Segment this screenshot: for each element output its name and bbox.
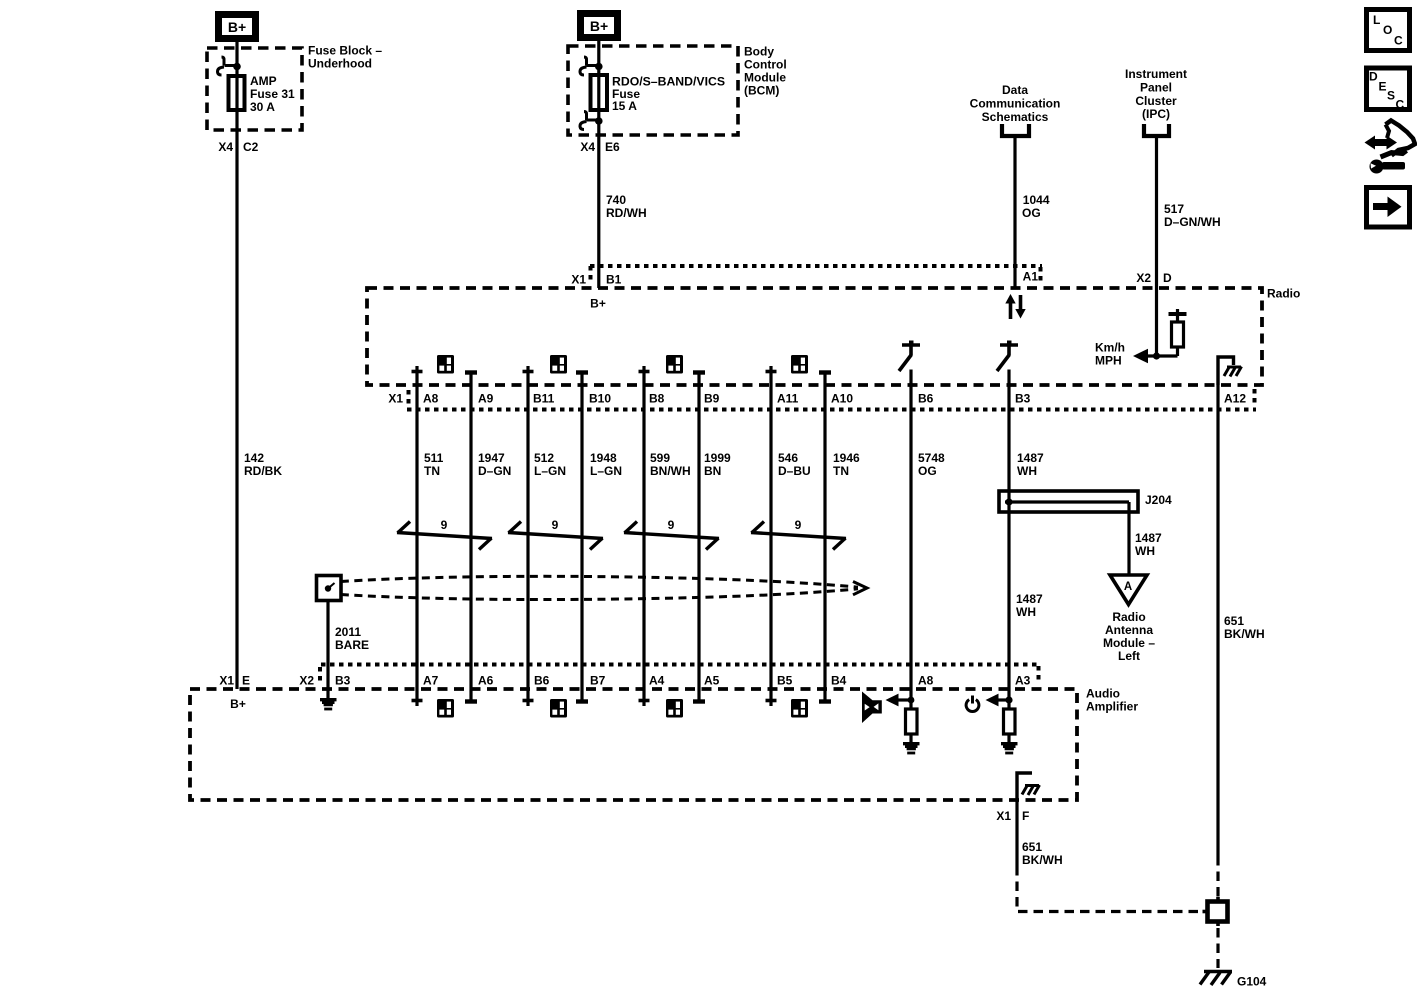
svg-text:A6: A6 [478, 674, 494, 688]
svg-text:B+: B+ [228, 19, 246, 35]
svg-text:Radio: Radio [1267, 287, 1300, 301]
junction amp A3 [1005, 696, 1012, 703]
svg-text:Schematics: Schematics [982, 110, 1049, 124]
value label fuse 31 AMP 30 A [250, 74, 295, 114]
power symbol amp A3 [966, 696, 979, 712]
radio dashed box [367, 288, 1262, 385]
minus terminal radio A9 [465, 370, 477, 374]
svg-text:X1: X1 [996, 809, 1011, 823]
svg-text:B4: B4 [831, 674, 847, 688]
fuse block underhood dashed box [207, 48, 302, 130]
svg-text:740: 740 [606, 193, 626, 207]
svg-text:Radio: Radio [1112, 610, 1145, 624]
svg-text:Antenna: Antenna [1105, 623, 1153, 637]
svg-text:B6: B6 [918, 392, 934, 406]
shield drain box [317, 576, 342, 601]
svg-text:511: 511 [424, 451, 444, 465]
svg-text:D–GN: D–GN [478, 464, 511, 478]
svg-text:A12: A12 [1224, 392, 1246, 406]
value label fuse RDO/S-BAND/VICS 15 A [612, 75, 725, 113]
wire label 651 BK/WH right [1224, 614, 1265, 641]
audio amplifier dashed box [190, 689, 1077, 800]
svg-text:512: 512 [534, 451, 554, 465]
svg-text:BK/WH: BK/WH [1022, 853, 1063, 867]
icon LOC box [1367, 10, 1410, 51]
arrow to power symbol [986, 694, 1010, 707]
svg-text:B+: B+ [590, 18, 608, 34]
plus terminal amp B6 [523, 699, 534, 703]
label radio antenna module left [1103, 610, 1155, 663]
svg-text:Control: Control [744, 58, 787, 72]
svg-text:Module –: Module – [1103, 636, 1155, 650]
svg-text:BN/WH: BN/WH [650, 464, 691, 478]
svg-text:517: 517 [1164, 202, 1184, 216]
wire label 511 TN [424, 451, 444, 478]
svg-text:Amplifier: Amplifier [1086, 700, 1138, 714]
svg-text:9: 9 [668, 518, 675, 532]
wire resistor A8 to ground [909, 734, 912, 742]
dashed run to G104 [1216, 928, 1219, 968]
svg-text:A1: A1 [1023, 270, 1039, 284]
twisted pair symbol 4 [751, 522, 846, 550]
svg-text:Fuse 31: Fuse 31 [250, 87, 295, 101]
ground splice block [1203, 897, 1228, 926]
svg-text:9: 9 [441, 518, 448, 532]
wire 1487 WH J204 to antenna module [1127, 502, 1130, 575]
B+ terminal left [215, 11, 259, 42]
minus terminal amp B4 [819, 699, 831, 703]
svg-text:B1: B1 [606, 273, 622, 287]
data communication schematics bracket [1002, 124, 1029, 136]
svg-text:A7: A7 [423, 674, 439, 688]
svg-text:WH: WH [1017, 464, 1037, 478]
junction node D [1153, 352, 1160, 359]
svg-text:BK/WH: BK/WH [1224, 627, 1265, 641]
wire label 1999 BN [704, 451, 731, 478]
junction J204 [1005, 498, 1012, 505]
svg-text:F: F [1022, 809, 1029, 823]
svg-text:A4: A4 [649, 674, 665, 688]
wire 546 D-BU A11 to B5 [769, 366, 772, 706]
resistor amp A3 pulldown [1004, 709, 1016, 734]
svg-text:C: C [1396, 98, 1405, 112]
svg-text:A10: A10 [831, 392, 853, 406]
switch contact dot B3 [1007, 341, 1012, 346]
connector label X1 E [219, 674, 250, 688]
wire 1999 BN B9 to A5 [697, 373, 700, 702]
svg-text:B10: B10 [589, 392, 611, 406]
wire label 1947 D-GN [478, 451, 511, 478]
fuse clip F15 bottom [580, 112, 599, 130]
wire 740 RD/WH from B+ through fuse 15A to radio X1 B1 [597, 41, 600, 288]
wire 142 RD/BK from B+ to amplifier X1 E [235, 42, 238, 689]
chassis ground hatch amp X1 F [1022, 785, 1040, 795]
svg-text:1487: 1487 [1016, 592, 1043, 606]
svg-text:Fuse Block –: Fuse Block – [308, 44, 382, 58]
svg-text:E6: E6 [605, 140, 620, 154]
svg-text:1999: 1999 [704, 451, 731, 465]
plus terminal amp A4 [639, 699, 650, 703]
svg-text:Instrument: Instrument [1125, 67, 1187, 81]
junction clip F31 [233, 63, 241, 71]
radio antenna module triangle A [1110, 575, 1147, 605]
speaker icon amp front right [666, 699, 683, 718]
fuse F15 body [591, 75, 608, 110]
twisted pair symbol 3 [624, 522, 719, 550]
wire label 512 L-GN [534, 451, 566, 478]
resistor amp A8 pulldown [906, 709, 918, 734]
svg-text:A8: A8 [423, 392, 439, 406]
svg-text:1487: 1487 [1017, 451, 1044, 465]
svg-text:X1: X1 [219, 674, 234, 688]
svg-text:OG: OG [1022, 206, 1041, 220]
speaker icon amp rear right [791, 699, 808, 718]
plus terminal radio B11 [523, 370, 534, 374]
svg-text:(IPC): (IPC) [1142, 107, 1170, 121]
label body control module [744, 45, 787, 98]
wire 511 TN A8 to A7 [415, 366, 418, 706]
speaker icon radio front right [666, 355, 683, 374]
svg-text:2011: 2011 [335, 625, 361, 639]
svg-text:651: 651 [1224, 614, 1244, 628]
svg-text:X2: X2 [299, 674, 314, 688]
svg-text:15 A: 15 A [612, 99, 637, 113]
svg-text:Module: Module [744, 71, 786, 85]
fuse clip F15 top [580, 57, 599, 75]
label Km/h MPH [1095, 341, 1125, 368]
wire label 1948 L-GN [590, 451, 622, 478]
fuse F31 body [229, 76, 245, 110]
svg-text:C: C [1394, 34, 1403, 48]
svg-text:Left: Left [1118, 649, 1140, 663]
wire label 740 RD/WH [606, 193, 647, 220]
wire 1946 TN A10 to B4 [823, 373, 826, 702]
svg-text:A11: A11 [777, 392, 799, 406]
svg-text:B8: B8 [649, 392, 665, 406]
wire label 1946 TN [833, 451, 860, 478]
shield ellipse around speaker wires [341, 576, 858, 599]
svg-text:546: 546 [778, 451, 798, 465]
svg-text:B7: B7 [590, 674, 606, 688]
wire label 1487 WH upper [1017, 451, 1044, 478]
svg-text:BARE: BARE [335, 638, 369, 652]
ground symbol amp X2 B3 [320, 698, 337, 710]
shield drain dot [325, 585, 331, 591]
svg-text:D–BU: D–BU [778, 464, 811, 478]
wire through J204 [1007, 491, 1010, 512]
svg-text:A3: A3 [1015, 674, 1031, 688]
svg-text:L–GN: L–GN [534, 464, 566, 478]
svg-text:(BCM): (BCM) [744, 84, 779, 98]
wire label 142 RD/BK [244, 451, 282, 478]
amplifier connector dotted line (pins X2 B3 .. A3) [320, 665, 1040, 686]
svg-text:RD/WH: RD/WH [606, 206, 647, 220]
svg-text:D: D [1163, 271, 1172, 285]
svg-text:C2: C2 [243, 140, 259, 154]
instrument panel cluster bracket [1144, 124, 1169, 136]
svg-text:D: D [1369, 70, 1378, 84]
svg-text:RD/BK: RD/BK [244, 464, 282, 478]
switch symbol radio pin B3 [997, 345, 1018, 371]
icon DESC box [1367, 68, 1410, 112]
wire label 546 D-BU [778, 451, 811, 478]
radio serial data up/down arrows at A1 [1005, 294, 1025, 319]
label audio amplifier [1086, 687, 1138, 714]
label data communication schematics [970, 83, 1061, 124]
svg-text:142: 142 [244, 451, 264, 465]
label instrument panel cluster [1125, 67, 1187, 121]
dashed run 651 BK/WH to splice [1017, 866, 1203, 912]
svg-text:30 A: 30 A [250, 100, 275, 114]
plus terminal amp B5 [766, 699, 777, 703]
svg-text:B9: B9 [704, 392, 720, 406]
svg-text:E: E [242, 674, 250, 688]
connector label X2 B3 [299, 674, 350, 688]
shield drain tick [328, 583, 335, 589]
fuse clip F31 [218, 57, 238, 75]
radio connector X1 dotted line [407, 389, 1256, 410]
wire 651 BK/WH from radio A12 down [1216, 385, 1219, 856]
icon schematic reference tool [1365, 121, 1416, 174]
wire label 1487 WH lower [1016, 592, 1043, 619]
splice pack J204 [999, 491, 1138, 512]
body control module (BCM) dashed box [568, 46, 738, 135]
svg-text:651: 651 [1022, 840, 1042, 854]
switch symbol radio pin B6 [899, 345, 920, 371]
minus terminal amp B7 [576, 699, 588, 703]
chassis ground hatch radio A12 [1224, 367, 1242, 377]
svg-text:Panel: Panel [1140, 80, 1172, 94]
wire 651 BK/WH amp X1 F down [1015, 800, 1018, 866]
svg-text:Audio: Audio [1086, 687, 1120, 701]
minus terminal amp A5 [693, 699, 705, 703]
B+ terminal BCM feed [577, 10, 621, 41]
svg-text:9: 9 [795, 518, 802, 532]
wire 1947 D-GN A9 to A6 [469, 373, 472, 702]
svg-text:1487: 1487 [1135, 531, 1162, 545]
svg-text:TN: TN [424, 464, 440, 478]
arrow to Km/h MPH [1133, 349, 1148, 364]
svg-text:B6: B6 [534, 674, 550, 688]
svg-text:J204: J204 [1145, 493, 1172, 507]
twisted pair symbol 2 [508, 522, 603, 550]
svg-text:L–GN: L–GN [590, 464, 622, 478]
svg-text:Underhood: Underhood [308, 57, 372, 71]
svg-text:A8: A8 [918, 674, 934, 688]
wire label 1044 OG [1022, 193, 1050, 220]
wire label 517 D-GN/WH [1164, 202, 1221, 229]
speaker mute icon amp A8 [862, 692, 882, 724]
speaker icon amp front left [437, 699, 454, 718]
svg-text:G104: G104 [1237, 975, 1267, 989]
wire 5748 OG radio B6 to amp A8 [909, 370, 912, 710]
icon forward arrow box [1367, 188, 1410, 228]
dashed run 651 BK/WH from A12 [1216, 856, 1219, 898]
svg-text:X1: X1 [571, 273, 586, 287]
pin labels radio connector row [388, 392, 1246, 406]
wire 1948 L-GN B10 to B7 [580, 373, 583, 702]
wire 1487 WH radio B3 to amp A3 [1007, 370, 1010, 710]
plus terminal radio B8 [639, 370, 650, 374]
svg-text:MPH: MPH [1095, 354, 1122, 368]
junction clip F15 bottom [595, 117, 603, 125]
svg-text:WH: WH [1135, 544, 1155, 558]
svg-text:Cluster: Cluster [1135, 94, 1177, 108]
J204 internal bus [1005, 500, 1129, 503]
svg-text:B5: B5 [777, 674, 793, 688]
radio vehicle speed input wiring at D [1146, 309, 1187, 356]
label fuse block underhood [308, 44, 382, 71]
svg-text:X2: X2 [1136, 271, 1151, 285]
connector label X1 F [996, 809, 1029, 823]
svg-text:E: E [1379, 80, 1387, 94]
svg-text:X4: X4 [580, 140, 595, 154]
radio top connector X1 dotted line (pins B1 A1) [590, 266, 1042, 284]
speaker icon radio rear right [791, 355, 808, 374]
pin labels amp connector row [423, 674, 1031, 688]
resistor internal radio [1172, 322, 1184, 347]
switch contact dot B6 [909, 341, 914, 346]
speaker icon amp rear left [550, 699, 567, 718]
wire 2011 BARE shield drain to amp X2 B3 [326, 601, 329, 699]
connector label X4 E6 [580, 140, 620, 154]
speaker icon radio front left [437, 355, 454, 374]
amp case ground hook at X1 F [1017, 773, 1032, 800]
svg-text:AMP: AMP [250, 74, 277, 88]
svg-text:A5: A5 [704, 674, 720, 688]
svg-text:X1: X1 [388, 392, 403, 406]
svg-text:Km/h: Km/h [1095, 341, 1125, 355]
wire label 5748 OG [918, 451, 945, 478]
svg-text:599: 599 [650, 451, 670, 465]
svg-text:O: O [1383, 23, 1392, 37]
wire label 1487 WH right [1135, 531, 1162, 558]
svg-text:B11: B11 [533, 392, 555, 406]
svg-text:1947: 1947 [478, 451, 505, 465]
arrow to mute icon [886, 694, 912, 707]
svg-text:B3: B3 [335, 674, 351, 688]
minus terminal radio B10 [576, 370, 588, 374]
svg-text:B3: B3 [1015, 392, 1031, 406]
svg-text:1948: 1948 [590, 451, 617, 465]
connector label X4 C2 [218, 140, 258, 154]
wire label 2011 BARE [335, 625, 369, 652]
ground G104 [1200, 972, 1232, 986]
svg-text:5748: 5748 [918, 451, 945, 465]
wire 517 D-GN/WH from IPC to radio X2 D [1155, 137, 1158, 356]
minus terminal radio A10 [819, 370, 831, 374]
plus terminal amp A7 [412, 699, 423, 703]
radio case ground hook at A12 [1218, 357, 1234, 385]
svg-text:Body: Body [744, 45, 774, 59]
ground symbol amp A3 [1001, 742, 1018, 754]
plus terminal radio A11 [766, 370, 777, 374]
svg-text:Communication: Communication [970, 96, 1061, 110]
svg-text:1946: 1946 [833, 451, 860, 465]
svg-text:D–GN/WH: D–GN/WH [1164, 215, 1221, 229]
minus terminal amp A6 [465, 699, 477, 703]
svg-text:Data: Data [1002, 83, 1028, 97]
wire 512 L-GN B11 to B6 [526, 366, 529, 706]
svg-text:WH: WH [1016, 605, 1036, 619]
wire 1044 OG from data communication to radio A1 [1013, 136, 1016, 288]
svg-text:9: 9 [552, 518, 559, 532]
wire 599 BN/WH B8 to A4 [642, 366, 645, 706]
connector label X1 B1 [571, 273, 621, 287]
twisted pair symbol 1 [397, 522, 492, 550]
svg-text:A: A [1124, 581, 1132, 593]
wire label 599 BN/WH [650, 451, 691, 478]
plus terminal radio A8 [412, 370, 423, 374]
minus terminal radio B9 [693, 370, 705, 374]
svg-text:X4: X4 [218, 140, 233, 154]
svg-text:1044: 1044 [1023, 193, 1050, 207]
connector label X2 D [1136, 271, 1172, 285]
svg-text:BN: BN [704, 464, 721, 478]
svg-text:OG: OG [918, 464, 937, 478]
svg-text:TN: TN [833, 464, 849, 478]
wire label 651 BK/WH left [1022, 840, 1063, 867]
svg-text:A9: A9 [478, 392, 494, 406]
svg-text:B+: B+ [590, 297, 606, 311]
wire resistor A3 to ground [1007, 734, 1010, 742]
shield ellipse tip arrow [853, 582, 867, 595]
svg-text:S: S [1387, 89, 1395, 103]
speaker icon radio rear left [550, 355, 567, 374]
junction clip F15 top [595, 63, 603, 71]
ground symbol amp A8 [903, 742, 920, 754]
svg-text:L: L [1373, 13, 1380, 27]
junction amp A8 [908, 697, 915, 704]
svg-text:B+: B+ [230, 697, 246, 711]
